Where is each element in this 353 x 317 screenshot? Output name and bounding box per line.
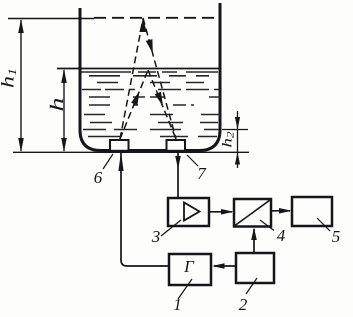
h2 arrow down (from above)	[235, 117, 240, 130]
block 1 (generator)	[169, 254, 211, 285]
h arrow down	[61, 138, 67, 152]
arrowhead into block 4	[221, 209, 234, 215]
transducer 7 (receiver)	[167, 140, 186, 151]
wire: transducer 7 down to block 3	[177, 152, 179, 198]
beam: 6 up to top reference (big triangle left)	[120, 19, 143, 139]
h arrow up	[61, 69, 67, 83]
h2 arrow up (from below)	[235, 152, 240, 164]
diagonal symbol in block 4	[235, 200, 270, 226]
h1 arrow up	[18, 19, 24, 33]
svg-text:2: 2	[239, 295, 248, 314]
svg-text:6: 6	[94, 168, 103, 187]
wire 2 -> 4	[253, 229, 255, 253]
leader for 5	[317, 218, 330, 231]
wire 4 -> 5	[271, 210, 290, 212]
svg-text:1: 1	[173, 295, 182, 314]
dimension h2 line	[237, 111, 239, 168]
block 3 (amplifier)	[168, 198, 209, 226]
wire: block 1 left, up to transducer 6	[121, 153, 169, 266]
arrowhead down on small right beam	[155, 92, 163, 106]
arrowhead up into transducer 6	[118, 152, 123, 171]
block 5	[292, 197, 332, 226]
transducer 6 (emitter)	[110, 140, 129, 151]
liquid shading dashes	[82, 76, 221, 137]
beam: 6 up to liquid surface (small triangle left)	[120, 70, 148, 139]
dimension h1 line	[20, 20, 22, 151]
liquid surface second line	[81, 71, 218, 73]
leader for 4	[260, 220, 274, 231]
svg-text:3: 3	[151, 227, 161, 246]
h2 extension tick	[222, 129, 248, 131]
arrowhead into block 1	[212, 263, 225, 269]
leader for 7	[187, 155, 198, 166]
block 2	[236, 253, 274, 283]
dimension h line	[63, 70, 65, 151]
arrowhead up at apex	[139, 18, 146, 32]
svg-text:4: 4	[277, 226, 286, 245]
arrowhead down on wire 7->3	[175, 156, 181, 169]
h1 arrow down	[18, 138, 24, 152]
tank vessel outline	[80, 3, 220, 151]
arrowhead into block 5	[279, 208, 292, 214]
svg-text:5: 5	[332, 227, 341, 246]
block 4	[234, 199, 271, 227]
leader for 6	[103, 154, 113, 169]
leader for 1	[178, 279, 192, 299]
wire 3 -> 4	[209, 211, 232, 213]
max level dashed line	[94, 17, 218, 19]
h1 top extension line	[8, 18, 94, 20]
svg-text:h: h	[47, 98, 68, 112]
leader for 3	[161, 220, 181, 236]
amplifier triangle symbol	[184, 203, 200, 221]
beam: top reference down to 7 (big triangle right)	[143, 18, 176, 139]
liquid surface line (also h top extension)	[57, 68, 221, 70]
arrowhead up on small left beam	[131, 91, 139, 105]
arrowhead into block 4	[251, 228, 257, 241]
ground / datum line	[13, 151, 249, 153]
leader for 2	[246, 278, 257, 294]
beam: liquid surface down to 7 (small triangle right)	[148, 70, 176, 139]
wire 2 -> 1	[214, 265, 236, 267]
arrowhead down on big right beam	[146, 39, 153, 53]
svg-text:Г: Г	[183, 257, 195, 276]
